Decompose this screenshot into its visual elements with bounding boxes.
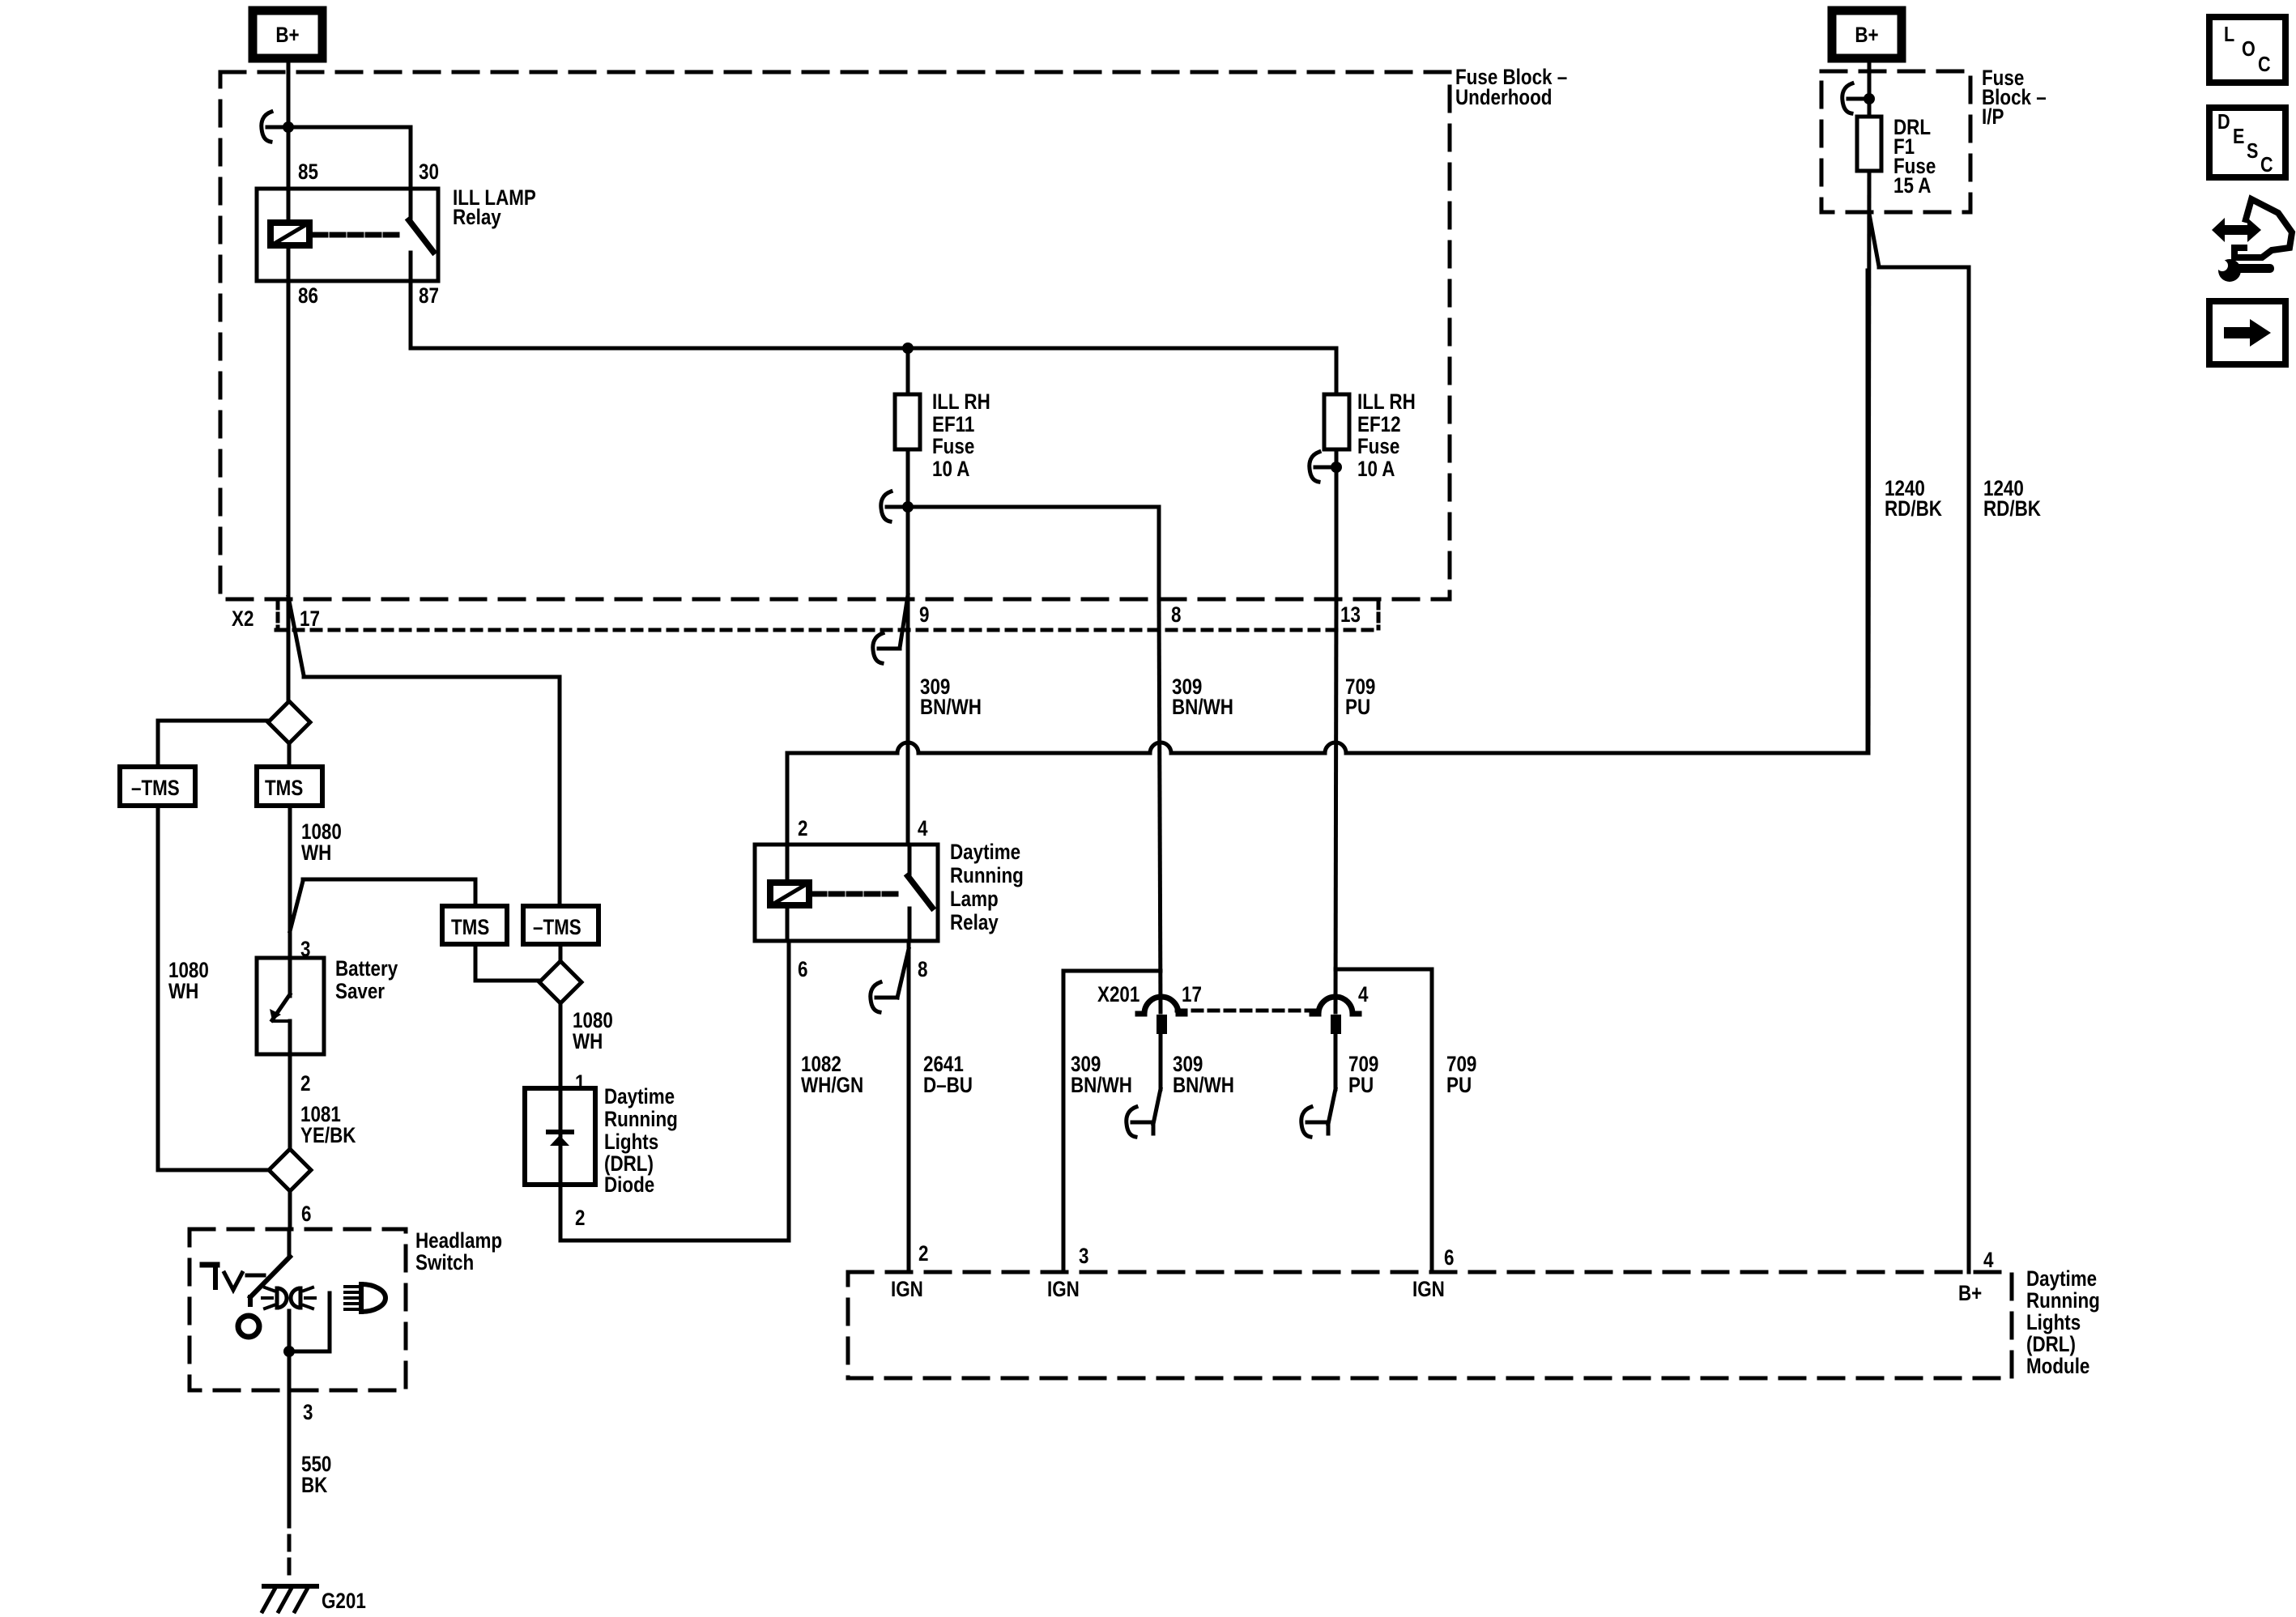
svg-text:PU: PU [1446, 1074, 1472, 1097]
svg-text:–TMS: –TMS [533, 916, 581, 939]
svg-text:1080: 1080 [301, 820, 342, 844]
svg-text:2: 2 [918, 1242, 928, 1266]
svg-text:8: 8 [1171, 603, 1182, 627]
svg-text:–TMS: –TMS [131, 777, 180, 800]
svg-text:PU: PU [1345, 696, 1370, 719]
svg-text:13: 13 [1340, 603, 1361, 627]
svg-text:30: 30 [419, 160, 439, 184]
svg-text:RD/BK: RD/BK [1885, 497, 1942, 521]
svg-text:L: L [2224, 23, 2234, 46]
svg-text:6: 6 [301, 1202, 311, 1226]
svg-text:X201: X201 [1097, 983, 1139, 1006]
svg-text:309: 309 [1173, 1053, 1203, 1076]
svg-text:2: 2 [300, 1072, 310, 1096]
svg-text:Lights: Lights [2026, 1311, 2081, 1334]
svg-text:9: 9 [919, 603, 929, 627]
svg-text:D–BU: D–BU [923, 1074, 973, 1097]
svg-text:Running: Running [2026, 1289, 2100, 1313]
svg-text:2641: 2641 [923, 1053, 964, 1076]
svg-text:C: C [2258, 53, 2271, 76]
svg-text:BN/WH: BN/WH [920, 696, 982, 719]
svg-text:WH: WH [168, 980, 198, 1003]
svg-text:4: 4 [918, 817, 928, 840]
svg-text:1: 1 [575, 1071, 586, 1095]
svg-text:BN/WH: BN/WH [1071, 1074, 1132, 1097]
svg-text:ILL RH: ILL RH [1357, 390, 1416, 414]
svg-text:B+: B+ [1958, 1282, 1982, 1305]
svg-text:EF11: EF11 [932, 413, 974, 436]
svg-text:Relay: Relay [453, 206, 501, 229]
svg-text:RD/BK: RD/BK [1983, 497, 2041, 521]
svg-text:Lamp: Lamp [950, 887, 999, 911]
svg-text:Headlamp: Headlamp [415, 1229, 502, 1253]
svg-text:E: E [2233, 125, 2244, 148]
svg-text:3: 3 [1079, 1245, 1088, 1268]
svg-text:YE/BK: YE/BK [300, 1124, 356, 1147]
svg-text:2: 2 [575, 1206, 585, 1230]
svg-text:G201: G201 [322, 1589, 366, 1613]
svg-text:4: 4 [1983, 1249, 1994, 1272]
svg-text:WH: WH [573, 1030, 603, 1053]
svg-text:IGN: IGN [1047, 1278, 1080, 1301]
svg-text:(DRL): (DRL) [2026, 1333, 2076, 1356]
svg-text:10 A: 10 A [1357, 457, 1395, 481]
svg-text:Daytime: Daytime [950, 840, 1020, 864]
svg-text:8: 8 [918, 958, 928, 981]
svg-text:10 A: 10 A [932, 457, 970, 481]
svg-text:87: 87 [419, 284, 439, 308]
svg-text:C: C [2260, 153, 2273, 177]
svg-text:1082: 1082 [801, 1053, 841, 1076]
svg-text:D: D [2217, 110, 2230, 134]
svg-text:B+: B+ [1855, 23, 1878, 47]
svg-text:2: 2 [798, 817, 807, 840]
svg-text:TMS: TMS [265, 777, 303, 800]
svg-text:Module: Module [2026, 1355, 2089, 1378]
svg-text:309: 309 [1071, 1053, 1101, 1076]
svg-text:Running: Running [950, 864, 1024, 887]
svg-text:Battery: Battery [335, 957, 398, 981]
svg-text:(DRL): (DRL) [604, 1152, 654, 1176]
svg-text:17: 17 [300, 607, 320, 631]
svg-text:WH: WH [301, 841, 331, 865]
svg-text:X2: X2 [232, 607, 253, 631]
svg-text:6: 6 [1444, 1246, 1454, 1270]
svg-text:Saver: Saver [335, 980, 385, 1003]
svg-text:Underhood: Underhood [1455, 86, 1552, 109]
svg-text:709: 709 [1446, 1053, 1476, 1076]
svg-text:Running: Running [604, 1108, 678, 1131]
svg-text:B+: B+ [275, 23, 299, 47]
svg-text:Relay: Relay [950, 911, 999, 934]
svg-text:WH/GN: WH/GN [801, 1074, 863, 1097]
svg-text:O: O [2242, 37, 2256, 61]
svg-text:Daytime: Daytime [2026, 1267, 2097, 1291]
svg-text:3: 3 [303, 1401, 313, 1424]
svg-text:17: 17 [1182, 983, 1202, 1006]
svg-text:86: 86 [298, 284, 318, 308]
svg-text:EF12: EF12 [1357, 413, 1401, 436]
svg-text:TMS: TMS [451, 916, 489, 939]
svg-text:PU: PU [1348, 1074, 1374, 1097]
svg-text:Fuse: Fuse [1357, 435, 1399, 458]
svg-text:1080: 1080 [573, 1009, 613, 1032]
svg-text:85: 85 [298, 160, 318, 184]
svg-text:6: 6 [798, 958, 807, 981]
svg-text:3: 3 [300, 938, 310, 961]
svg-text:550: 550 [301, 1453, 331, 1476]
svg-text:1080: 1080 [168, 959, 209, 982]
svg-text:S: S [2247, 139, 2258, 163]
svg-text:BN/WH: BN/WH [1172, 696, 1233, 719]
svg-text:709: 709 [1348, 1053, 1378, 1076]
svg-text:1081: 1081 [300, 1103, 341, 1126]
svg-text:IGN: IGN [1412, 1278, 1445, 1301]
svg-text:I/P: I/P [1982, 105, 2004, 129]
svg-text:Diode: Diode [604, 1173, 654, 1197]
svg-text:Lights: Lights [604, 1130, 658, 1154]
svg-text:4: 4 [1358, 983, 1369, 1006]
svg-text:15 A: 15 A [1893, 174, 1932, 198]
svg-text:ILL RH: ILL RH [932, 390, 990, 414]
svg-text:BK: BK [301, 1474, 327, 1497]
svg-text:Daytime: Daytime [604, 1085, 675, 1108]
svg-text:BN/WH: BN/WH [1173, 1074, 1234, 1097]
svg-text:Fuse: Fuse [932, 435, 974, 458]
svg-text:Switch: Switch [415, 1251, 474, 1274]
svg-text:IGN: IGN [891, 1278, 923, 1301]
